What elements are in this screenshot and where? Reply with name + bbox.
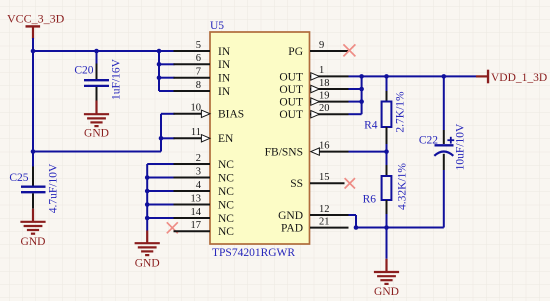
junction R4 top [384,74,389,79]
ground for C25 [20,209,45,248]
U5 pin 14 (NC) [174,207,235,225]
svg-text:OUT: OUT [279,97,303,109]
junction NC row y=191 [145,189,150,194]
svg-text:2.7K/1%: 2.7K/1% [395,91,407,133]
svg-text:2: 2 [196,153,201,164]
wire EN stub [161,137,175,139]
svg-text:8: 8 [196,80,201,91]
svg-text:OUT: OUT [279,71,303,83]
svg-text:13: 13 [191,193,202,204]
svg-text:GND: GND [374,286,399,298]
svg-text:20: 20 [319,103,330,114]
svg-text:C25: C25 [9,172,28,184]
junction OUT collector [359,74,364,79]
U5 pin 6 (IN) [174,53,231,71]
svg-text:10uF/10V: 10uF/10V [455,123,467,170]
U5 pin 10 (BIAS) [174,103,245,121]
svg-text:IN: IN [218,46,231,58]
svg-text:BIAS: BIAS [218,109,244,121]
junction pin6 [157,62,162,67]
svg-text:NC: NC [218,159,234,171]
IC U5 TPS74201RGWR body [210,32,310,244]
wire VDD rail [349,75,477,77]
junction pin18 [359,87,364,92]
svg-text:17: 17 [191,220,202,231]
svg-text:FB/SNS: FB/SNS [265,147,303,159]
svg-text:NC: NC [218,172,234,184]
svg-text:OUT: OUT [279,109,303,121]
svg-text:PG: PG [288,46,303,58]
wire VCC vertical rail [32,38,34,167]
svg-text:21: 21 [319,216,330,227]
U5 pin 12 (GND) [278,204,348,222]
junction R6 bottom [384,225,389,230]
capacitor C22 (polarized) [434,76,454,227]
capacitor C20 [84,50,109,101]
svg-text:12: 12 [319,204,330,215]
svg-text:SS: SS [290,178,303,190]
junction NC row y=218 [145,216,150,221]
wire stub pin18 [349,88,362,90]
U5 pin 11 (EN) [174,127,235,145]
ground for C20 [84,101,109,140]
junction C20 top [94,49,99,54]
wire stub pin7 [159,77,175,79]
U5 pin 21 (PAD) [281,216,348,234]
svg-text:4: 4 [196,180,202,191]
wire IN collector vertical [158,51,160,91]
svg-text:18: 18 [319,78,330,89]
svg-text:NC: NC [218,213,234,225]
resistor R4 [382,76,392,152]
svg-text:10: 10 [191,103,202,114]
svg-text:NC: NC [218,226,234,238]
svg-text:C20: C20 [74,65,93,77]
svg-text:C22: C22 [419,135,438,147]
U5 pin 8 (IN) [174,80,231,98]
svg-text:VCC_3_3D: VCC_3_3D [7,12,65,26]
junction pin7 [157,75,162,80]
svg-text:1: 1 [319,65,324,76]
junction VCC rail at x=33 [31,49,36,54]
wire FB/SNS to divider [349,151,387,153]
resistor R6 [382,152,392,229]
junction IN collector top [157,49,162,54]
svg-text:VDD_1_3D: VDD_1_3D [491,72,547,84]
svg-text:U5: U5 [210,20,224,32]
wire VCC horizontal rail to IN pins [32,50,174,52]
no-ERC cross pin 17 [167,222,178,233]
svg-text:IN: IN [218,86,231,98]
svg-text:4.32K/1%: 4.32K/1% [396,163,408,210]
svg-text:5: 5 [196,40,201,51]
wire stub pin6 [159,63,175,65]
U5 pin 18 (OUT) [279,78,348,96]
svg-text:GND: GND [278,210,303,222]
no-ERC cross pin 9 (PG) [343,44,355,56]
U5 pin 20 (OUT) [279,103,348,121]
wire GND bottom rail [356,227,444,229]
svg-text:PAD: PAD [281,223,303,235]
svg-text:15: 15 [319,172,330,183]
junction EN [159,136,164,141]
junction pin19 [359,99,364,104]
wire NC collector [147,164,174,231]
svg-text:19: 19 [319,90,330,101]
junction NC row y=204.5 [145,202,150,207]
junction at VCC vertical [31,149,36,154]
U5 pin 17 (NC) [174,220,235,238]
U5 pin 13 (NC) [174,193,235,211]
svg-text:EN: EN [218,133,234,145]
svg-text:IN: IN [218,59,231,71]
wire pin12 bend [349,215,357,228]
junction NC row y=177.5 [145,175,150,180]
svg-text:14: 14 [191,207,202,218]
svg-text:GND: GND [135,257,160,269]
wire stub pin20 [349,113,362,115]
svg-text:R4: R4 [364,120,378,132]
U5 pin 15 (SS) [290,172,344,190]
capacitor C25 [21,167,46,209]
junction FB node [384,149,389,154]
svg-text:GND: GND [84,128,109,140]
wire OUT collector vertical [361,76,363,114]
power port VCC_3_3D [7,12,65,40]
wire BIAS bend [161,114,175,152]
no-ERC cross pin 15 (SS) [345,178,355,188]
svg-text:NC: NC [218,199,234,211]
junction pin21/pin12 [354,225,359,230]
U5 pin 1 (OUT) [279,65,348,83]
svg-text:9: 9 [319,40,324,51]
power port VDD_1_3D [476,70,547,84]
svg-text:OUT: OUT [279,84,303,96]
U5 pin 9 (PG) [288,40,348,58]
U5 pin 5 (IN) [174,40,231,58]
ground for output divider [374,228,399,299]
svg-text:3: 3 [196,166,201,177]
svg-text:16: 16 [319,140,330,151]
U5 pin 3 (NC) [174,166,235,184]
U5 pin 19 (OUT) [279,90,348,108]
svg-text:NC: NC [218,186,234,198]
svg-text:11: 11 [191,127,201,138]
svg-text:1uF/16V: 1uF/16V [110,58,122,100]
ground for NC pins [135,231,160,270]
U5 pin 16 (FB/SNS) [265,140,349,158]
U5 pin 2 (NC) [174,153,235,171]
svg-text:IN: IN [218,73,231,85]
wire stub pin8 [159,90,175,92]
svg-text:R6: R6 [363,194,377,206]
U5 pin 4 (NC) [174,180,235,198]
svg-text:4.7uF/10V: 4.7uF/10V [48,163,60,213]
svg-text:TPS74201RGWR: TPS74201RGWR [212,247,295,259]
svg-text:7: 7 [196,67,201,78]
svg-text:GND: GND [21,236,46,248]
wire BIAS/EN to VCC [33,151,161,153]
svg-text:6: 6 [196,53,201,64]
U5 pin 7 (IN) [174,67,231,85]
wire stub pin19 [349,101,362,103]
junction C22 top [442,74,447,79]
